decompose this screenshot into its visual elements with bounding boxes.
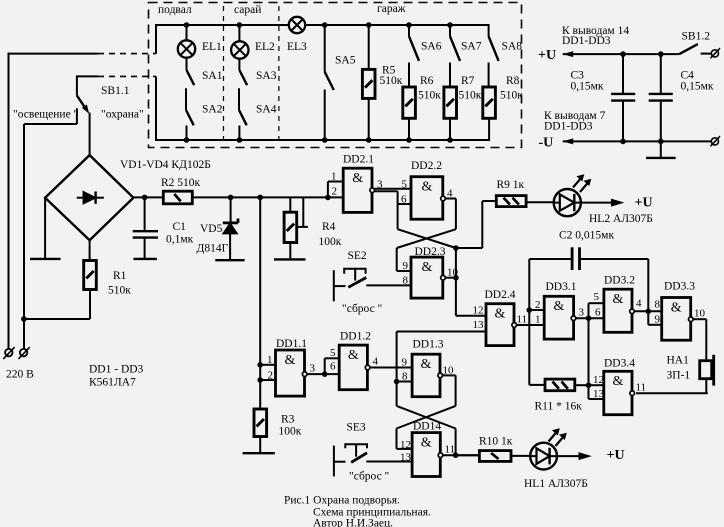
svg-text:0,15мк: 0,15мк xyxy=(571,81,604,93)
svg-text:12: 12 xyxy=(473,305,484,317)
svg-text:9: 9 xyxy=(402,357,408,369)
svg-text:12: 12 xyxy=(400,439,411,451)
svg-text:220 В: 220 В xyxy=(6,369,34,381)
svg-text:подвал: подвал xyxy=(158,4,192,16)
svg-text:1: 1 xyxy=(331,171,337,183)
svg-text:Автор Н.И.Заец.: Автор Н.И.Заец. xyxy=(313,518,393,527)
svg-text:10: 10 xyxy=(447,267,459,279)
svg-text:сарай: сарай xyxy=(234,4,261,16)
svg-text:-U: -U xyxy=(539,136,554,151)
svg-text:SA2: SA2 xyxy=(202,104,223,116)
svg-text:SA4: SA4 xyxy=(256,104,277,116)
svg-text:DD2.2: DD2.2 xyxy=(411,160,442,172)
svg-text:HA1: HA1 xyxy=(667,355,690,367)
svg-text:2: 2 xyxy=(535,299,541,311)
svg-text:0,1мк: 0,1мк xyxy=(166,234,194,246)
svg-text:DD1-DD3: DD1-DD3 xyxy=(544,121,593,133)
svg-text:8: 8 xyxy=(403,275,409,287)
svg-text:C1: C1 xyxy=(173,221,187,233)
svg-text:"охрана": "охрана" xyxy=(101,109,144,121)
svg-text:DD3.2: DD3.2 xyxy=(604,275,635,287)
svg-text:11: 11 xyxy=(517,314,528,326)
svg-text:13: 13 xyxy=(400,452,412,464)
svg-text:Д814Г: Д814Г xyxy=(197,243,229,255)
svg-text:DD1.1: DD1.1 xyxy=(276,338,307,350)
svg-text:SA8: SA8 xyxy=(502,41,523,53)
svg-text:R10 1к: R10 1к xyxy=(479,436,513,448)
svg-text:3: 3 xyxy=(310,363,316,375)
svg-text:8: 8 xyxy=(655,299,661,311)
svg-text:DD1-DD3: DD1-DD3 xyxy=(562,35,611,47)
svg-text:EL1: EL1 xyxy=(202,41,222,53)
svg-text:6: 6 xyxy=(595,307,601,319)
svg-text:DD2.4: DD2.4 xyxy=(485,289,516,301)
svg-text:SE2: SE2 xyxy=(348,250,367,262)
svg-text:1: 1 xyxy=(535,314,541,326)
svg-text:3: 3 xyxy=(377,179,383,191)
svg-text:5: 5 xyxy=(594,291,600,303)
svg-text:&: & xyxy=(348,348,359,363)
svg-text:9: 9 xyxy=(403,260,409,272)
svg-text:11: 11 xyxy=(636,382,647,394)
svg-text:DD1.2: DD1.2 xyxy=(340,331,371,343)
svg-text:&: & xyxy=(553,299,564,314)
svg-text:&: & xyxy=(421,180,432,195)
svg-text:10: 10 xyxy=(694,308,706,320)
svg-text:&: & xyxy=(613,292,624,307)
svg-text:R3: R3 xyxy=(281,414,295,426)
svg-text:+U: +U xyxy=(607,448,625,463)
svg-text:К561ЛА7: К561ЛА7 xyxy=(89,377,136,389)
svg-text:SA7: SA7 xyxy=(461,41,482,53)
svg-text:"освещение ": "освещение " xyxy=(13,109,78,121)
svg-text:гараж: гараж xyxy=(377,3,406,15)
svg-text:VD1-VD4 КД102Б: VD1-VD4 КД102Б xyxy=(120,159,211,171)
svg-text:1: 1 xyxy=(267,354,273,366)
svg-text:12: 12 xyxy=(593,374,604,386)
svg-text:R1: R1 xyxy=(113,270,127,282)
svg-text:510к: 510к xyxy=(108,285,131,297)
svg-text:8: 8 xyxy=(402,371,408,383)
svg-text:4: 4 xyxy=(373,356,379,368)
svg-text:R4: R4 xyxy=(322,221,336,233)
svg-text:&: & xyxy=(285,353,296,368)
svg-text:2: 2 xyxy=(268,370,274,382)
svg-text:C2 0,015мк: C2 0,015мк xyxy=(559,230,614,242)
svg-text:R11 * 16к: R11 * 16к xyxy=(535,401,583,413)
svg-text:R6: R6 xyxy=(420,75,434,87)
svg-text:5: 5 xyxy=(330,347,336,359)
svg-text:&: & xyxy=(612,374,623,389)
svg-text:&: & xyxy=(495,307,506,322)
svg-text:R7: R7 xyxy=(461,75,475,87)
svg-text:DD1 - DD3: DD1 - DD3 xyxy=(89,364,144,376)
svg-text:5: 5 xyxy=(402,178,408,190)
svg-text:6: 6 xyxy=(401,193,407,205)
svg-text:0,15мк: 0,15мк xyxy=(681,81,714,93)
svg-text:R2 510к: R2 510к xyxy=(161,177,201,189)
svg-text:100к: 100к xyxy=(279,426,302,438)
svg-text:SE3: SE3 xyxy=(347,422,366,434)
svg-text:DD2.1: DD2.1 xyxy=(343,154,374,166)
svg-text:SA3: SA3 xyxy=(256,70,277,82)
svg-text:9: 9 xyxy=(655,314,661,326)
svg-text:SB1.2: SB1.2 xyxy=(682,31,711,43)
svg-text:DD3.4: DD3.4 xyxy=(604,358,635,370)
svg-text:ЗП-1: ЗП-1 xyxy=(667,370,691,382)
svg-text:13: 13 xyxy=(473,319,485,331)
svg-text:10: 10 xyxy=(443,365,455,377)
svg-text:EL3: EL3 xyxy=(287,41,307,53)
svg-text:100к: 100к xyxy=(319,236,342,248)
svg-text:SA6: SA6 xyxy=(421,41,442,53)
svg-text:VD5: VD5 xyxy=(200,223,223,235)
svg-text:13: 13 xyxy=(593,388,605,400)
svg-text:4: 4 xyxy=(447,188,453,200)
svg-text:"сброс ": "сброс " xyxy=(349,471,389,483)
svg-text:&: & xyxy=(421,260,432,275)
svg-text:+U: +U xyxy=(635,196,653,211)
svg-text:510к: 510к xyxy=(459,90,482,102)
svg-text:R8: R8 xyxy=(506,75,520,87)
svg-text:&: & xyxy=(352,171,363,186)
svg-text:SA1: SA1 xyxy=(202,70,223,82)
svg-text:510к: 510к xyxy=(380,75,403,87)
svg-text:&: & xyxy=(421,357,432,372)
svg-text:DD2.3: DD2.3 xyxy=(415,246,446,258)
svg-text:&: & xyxy=(671,300,682,315)
svg-text:HL1 АЛ307Б: HL1 АЛ307Б xyxy=(524,478,588,490)
svg-text:510к: 510к xyxy=(418,90,441,102)
svg-text:DD14: DD14 xyxy=(413,421,441,433)
svg-text:SB1.1: SB1.1 xyxy=(101,85,130,97)
svg-text:3: 3 xyxy=(579,307,585,319)
svg-text:R9 1к: R9 1к xyxy=(497,179,525,191)
svg-text:+U: +U xyxy=(538,48,556,63)
svg-text:6: 6 xyxy=(330,361,336,373)
svg-text:&: & xyxy=(421,436,432,451)
svg-text:Рис.1 Охрана подворья.: Рис.1 Охрана подворья. xyxy=(284,495,400,507)
svg-text:510к: 510к xyxy=(500,90,523,102)
svg-text:11: 11 xyxy=(445,444,456,456)
svg-text:DD3.1: DD3.1 xyxy=(546,281,577,293)
svg-text:"сброс ": "сброс " xyxy=(342,303,382,315)
svg-text:SA5: SA5 xyxy=(335,55,356,67)
svg-text:HL2 АЛ307Б: HL2 АЛ307Б xyxy=(589,213,653,225)
svg-text:DD1.3: DD1.3 xyxy=(413,339,444,351)
svg-text:EL2: EL2 xyxy=(255,41,275,53)
svg-text:4: 4 xyxy=(636,298,642,310)
svg-text:DD3.3: DD3.3 xyxy=(664,281,695,293)
svg-text:2: 2 xyxy=(332,186,338,198)
